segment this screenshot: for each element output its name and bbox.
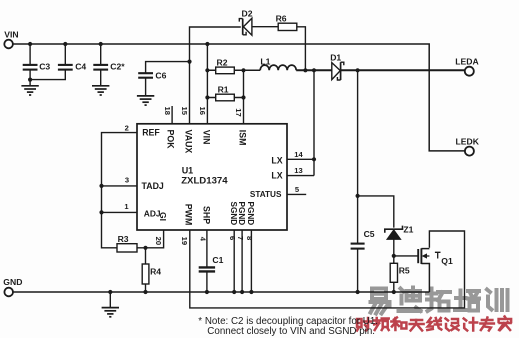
resistor R4 bbox=[145, 248, 147, 264]
wire D2 anode to R6 bbox=[252, 26, 278, 28]
node TADJ on left rail bbox=[99, 184, 103, 188]
capacitor C6 bbox=[138, 72, 153, 74]
svg-text:Q1: Q1 bbox=[441, 256, 453, 266]
svg-text:1: 1 bbox=[124, 202, 129, 211]
svg-text:GND: GND bbox=[3, 277, 22, 287]
svg-text:PGND: PGND bbox=[237, 202, 246, 226]
wire switched LED line y70 left part bbox=[207, 69, 260, 71]
svg-text:VIN: VIN bbox=[4, 30, 18, 40]
svg-text:8: 8 bbox=[245, 236, 254, 240]
svg-text:REF: REF bbox=[142, 127, 160, 137]
ground under C6 bbox=[137, 95, 154, 97]
svg-text:R3: R3 bbox=[118, 234, 129, 244]
svg-text:13: 13 bbox=[294, 166, 302, 175]
svg-text:C5: C5 bbox=[364, 229, 375, 239]
wire Z1 to R5 bbox=[393, 239, 395, 263]
node C6 tap on VAUX line bbox=[187, 60, 191, 64]
node R2 right / L1 / ISM bbox=[241, 68, 245, 72]
svg-text:19: 19 bbox=[180, 237, 189, 245]
svg-text:17: 17 bbox=[234, 108, 243, 116]
svg-text:LEDK: LEDK bbox=[456, 137, 480, 147]
node R4 on GND rail bbox=[143, 290, 147, 294]
wire gate lead to Q1 bbox=[394, 255, 418, 257]
wire LX pin13 bbox=[287, 175, 314, 177]
svg-text:C2*: C2* bbox=[110, 62, 125, 72]
transistor Q1 N-MOSFET bbox=[417, 249, 419, 263]
resistor R5 bbox=[390, 263, 397, 282]
wire SGND pin6 to GND rail bbox=[233, 230, 235, 292]
node LX feed on LED line bbox=[312, 68, 316, 72]
svg-text:D1: D1 bbox=[330, 52, 341, 62]
svg-text:LX: LX bbox=[271, 170, 282, 180]
svg-text:14: 14 bbox=[294, 150, 303, 159]
svg-text:R2: R2 bbox=[217, 57, 228, 67]
resistor R6 bbox=[278, 23, 297, 30]
wire STATUS pin5 stub bbox=[287, 193, 306, 195]
svg-text:16: 16 bbox=[198, 107, 207, 115]
svg-text:VIN: VIN bbox=[201, 130, 211, 145]
node R1 left on VIN pin line bbox=[205, 95, 209, 99]
capacitor C4 bbox=[30, 44, 65, 80]
wire VAUX pin15 up and over to D2 bbox=[190, 27, 241, 124]
svg-text:ISM: ISM bbox=[238, 130, 248, 146]
wire switched LED line y70 right part to LEDA bbox=[296, 69, 464, 71]
svg-text:C4: C4 bbox=[75, 62, 86, 72]
svg-text:U1: U1 bbox=[182, 166, 194, 176]
wire PGND pin8 to GND rail bbox=[250, 230, 252, 292]
diode D2 (Schottky, cathode left) bbox=[242, 19, 244, 35]
ground under C2* bbox=[92, 85, 109, 87]
wire ISM pin17 vertical bbox=[243, 70, 245, 124]
node C4 on VIN rail bbox=[63, 42, 67, 46]
svg-text:R5: R5 bbox=[399, 266, 410, 276]
node Z1/R5/gate bbox=[392, 254, 396, 258]
svg-text:D2: D2 bbox=[242, 9, 253, 19]
svg-text:R1: R1 bbox=[218, 84, 229, 94]
svg-text:C1: C1 bbox=[212, 255, 223, 265]
inductor L1 bbox=[260, 65, 296, 70]
resistor R2 bbox=[216, 67, 235, 74]
svg-text:SGND: SGND bbox=[229, 202, 238, 226]
wire ADJ pin1 bbox=[102, 211, 138, 213]
node C1 on GND rail bbox=[205, 290, 209, 294]
wire Z1 branch bbox=[358, 196, 394, 228]
svg-text:SHP: SHP bbox=[201, 206, 211, 224]
node C3/C4 ground join bbox=[28, 78, 32, 82]
node VIN pin16 on VIN rail bbox=[205, 42, 209, 46]
svg-text:15: 15 bbox=[180, 107, 189, 116]
svg-text:Connect closely to VIN and SGN: Connect closely to VIN and SGND pin. bbox=[207, 326, 375, 337]
zener Z1 bbox=[385, 226, 403, 233]
capacitor C5 bbox=[351, 243, 365, 245]
node R2 left on VIN pin line bbox=[205, 68, 209, 72]
svg-text:LX: LX bbox=[271, 156, 282, 166]
svg-text:PWM: PWM bbox=[184, 204, 194, 226]
wire C5 vertical from LED line to GND rail bbox=[357, 70, 359, 292]
wire LX pin14 bbox=[287, 158, 314, 160]
node pin7 on GND rail bbox=[240, 290, 244, 294]
node R3/R4/pin20 bbox=[143, 246, 147, 250]
node ground symbol tap on GND rail bbox=[108, 290, 112, 294]
wire R6 down to LED line bbox=[297, 27, 306, 71]
pin 18 POK stub bbox=[171, 106, 173, 124]
svg-text:POK: POK bbox=[165, 130, 175, 150]
wire PWM pin19 loop to Q1 drain bbox=[190, 230, 465, 308]
svg-text:STATUS: STATUS bbox=[250, 190, 282, 199]
wire VIN rail across top, down right side to LEDK bbox=[13, 44, 465, 151]
svg-text:GI: GI bbox=[158, 212, 168, 221]
svg-text:LEDA: LEDA bbox=[455, 57, 478, 67]
wire R3 to GI pin20 bbox=[137, 230, 164, 248]
svg-text:5: 5 bbox=[295, 185, 300, 194]
diode D1 (Schottky freewheel, cathode right) bbox=[332, 63, 341, 80]
svg-text:TADJ: TADJ bbox=[142, 181, 164, 191]
watermark text 易迪拓培训 (grey) and 射频和天线设计专家 (red), drawn as strokes bbox=[372, 289, 386, 300]
svg-text:R4: R4 bbox=[150, 267, 161, 277]
svg-text:18: 18 bbox=[163, 107, 172, 115]
resistor R3 bbox=[117, 244, 137, 252]
node LX pin14 join bbox=[312, 157, 316, 161]
wire VIN pin16 vertical bbox=[206, 44, 208, 124]
node R6 drop on LED line bbox=[303, 68, 307, 72]
svg-text:3: 3 bbox=[125, 175, 129, 184]
ground under C3 bbox=[21, 85, 38, 87]
svg-text:6: 6 bbox=[228, 236, 237, 240]
svg-text:Z1: Z1 bbox=[403, 224, 413, 234]
wire LX vertical bbox=[313, 70, 315, 175]
wire TADJ pin3 bbox=[102, 185, 138, 187]
svg-text:C3: C3 bbox=[39, 62, 50, 72]
capacitor C3 bbox=[29, 44, 31, 86]
wire SHP pin4 to C1 bbox=[206, 230, 208, 267]
svg-text:VAUX: VAUX bbox=[183, 130, 193, 154]
capacitor C2* bbox=[100, 44, 102, 86]
wire C6 branch from VAUX line bbox=[146, 62, 190, 73]
svg-text:PGND: PGND bbox=[246, 202, 255, 226]
ground symbol on GND rail bbox=[109, 292, 111, 308]
svg-text:L1: L1 bbox=[260, 56, 270, 66]
node Z1 branch on C5 line bbox=[356, 194, 360, 198]
svg-text:2: 2 bbox=[125, 124, 129, 133]
node C5 on GND rail bbox=[356, 290, 360, 294]
resistor R1 bbox=[216, 94, 235, 101]
wire R1 row bbox=[207, 97, 243, 99]
wire GND rail bbox=[13, 291, 429, 293]
node ADJ on left rail bbox=[99, 210, 103, 214]
svg-text:ZXLD1374: ZXLD1374 bbox=[181, 176, 228, 187]
node pin8 on GND rail bbox=[249, 290, 253, 294]
node R5 on GND rail bbox=[392, 290, 396, 294]
node pin6 on GND rail bbox=[232, 290, 236, 294]
svg-text:7: 7 bbox=[236, 236, 245, 240]
op-amp U1 ZXLD1374 IC body bbox=[137, 124, 287, 230]
svg-text:C6: C6 bbox=[155, 71, 166, 81]
wire REF pin2 to left rail bbox=[102, 133, 138, 248]
wire PGND pin7 to GND rail bbox=[241, 230, 243, 292]
node C5 line on LED line bbox=[356, 68, 360, 72]
capacitor C1 bbox=[199, 266, 215, 268]
node R1 right on ISM line bbox=[241, 95, 245, 99]
svg-text:R6: R6 bbox=[276, 14, 287, 24]
svg-text:20: 20 bbox=[154, 237, 163, 245]
node C3 on VIN rail bbox=[28, 42, 32, 46]
svg-text:4: 4 bbox=[198, 237, 207, 242]
node C2 on VIN rail bbox=[99, 42, 103, 46]
